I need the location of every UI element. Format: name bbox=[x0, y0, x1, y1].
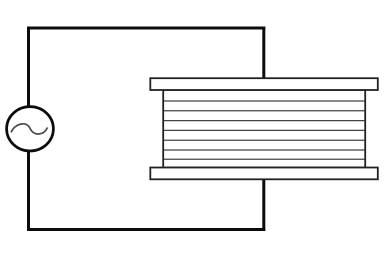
wire left bbox=[27, 28, 30, 230]
wire right bbox=[262, 28, 265, 230]
coil bottom flange bbox=[150, 168, 377, 180]
sine wave bbox=[11, 124, 48, 134]
coil winding turns bbox=[164, 101, 365, 159]
coil top flange bbox=[150, 78, 377, 90]
wire bottom bbox=[29, 228, 264, 231]
AC source bbox=[7, 107, 54, 151]
wire top bbox=[29, 27, 264, 30]
coil winding body bbox=[163, 90, 365, 168]
